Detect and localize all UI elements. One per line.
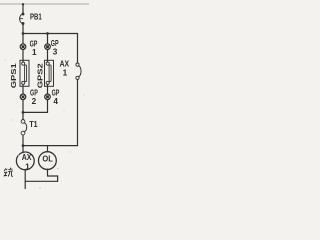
node tie junction (22, 111, 25, 114)
contact T1 (21, 120, 27, 136)
wire PB1 to bus (22, 24, 24, 34)
lamp OL circle (39, 152, 57, 170)
lamp AX circle (16, 152, 34, 170)
wire GP2 to tie junction (22, 100, 24, 113)
wire GP3 to GPS2 (47, 49, 49, 62)
wire junction to T1 (22, 112, 24, 119)
fuse unit GPS2 (45, 60, 54, 86)
svg-text:2: 2 (32, 97, 37, 106)
node left bus junction (22, 32, 25, 35)
wire GP1 to GPS1 (22, 49, 24, 62)
label kanji feed note (4, 168, 13, 177)
gap electrode GP3 (45, 44, 51, 50)
breaker PB1 (20, 13, 25, 25)
svg-text:3: 3 (53, 47, 58, 56)
svg-text:1: 1 (25, 162, 30, 172)
wire incoming supply bus (faint, full width) (0, 3, 89, 5)
gap electrode GP2 (20, 94, 26, 100)
scan speckles (5, 60, 85, 189)
svg-text:PB1: PB1 (30, 12, 42, 22)
wire top feeder (22, 4, 24, 13)
svg-text:1: 1 (32, 48, 37, 57)
svg-text:GPS2: GPS2 (38, 63, 45, 88)
fuse unit GPS1 (20, 60, 29, 86)
wire AX1 to lower bus (77, 80, 79, 146)
svg-text:OL: OL (42, 154, 52, 164)
wire AX lamp down lead (24, 170, 26, 189)
wire GPS1 to GP2 (22, 84, 24, 94)
wire top bus horizontal (23, 33, 78, 35)
wire T1 to lower junction (22, 136, 24, 146)
wire stub to lamp OL (47, 146, 49, 152)
svg-text:AX: AX (22, 152, 32, 162)
contact AX1 (76, 63, 81, 80)
svg-text:GPS1: GPS1 (11, 63, 18, 88)
svg-text:4: 4 (53, 97, 58, 106)
wire tie bus to middle branch (23, 111, 48, 113)
svg-text:1: 1 (63, 69, 68, 78)
wire right branch drop (77, 34, 79, 64)
wire stub to lamp AX (22, 146, 24, 153)
svg-text:AX: AX (60, 59, 70, 68)
node middle bus junction (46, 32, 49, 35)
wire GPS2 to GP4 (47, 84, 49, 94)
node lower junction (22, 144, 25, 147)
wire GP4 to tie bus (47, 100, 49, 113)
wire bottom return bus (25, 180, 57, 182)
node supply tap (22, 3, 24, 5)
gap electrode GP4 (45, 94, 51, 100)
svg-text:T1: T1 (29, 120, 38, 129)
gap electrode GP1 (20, 44, 26, 50)
wire OL lamp return jog (48, 169, 58, 181)
wire lower bus horizontal (23, 145, 78, 147)
wire left branch drop (22, 34, 24, 45)
wire middle branch drop (47, 34, 49, 45)
